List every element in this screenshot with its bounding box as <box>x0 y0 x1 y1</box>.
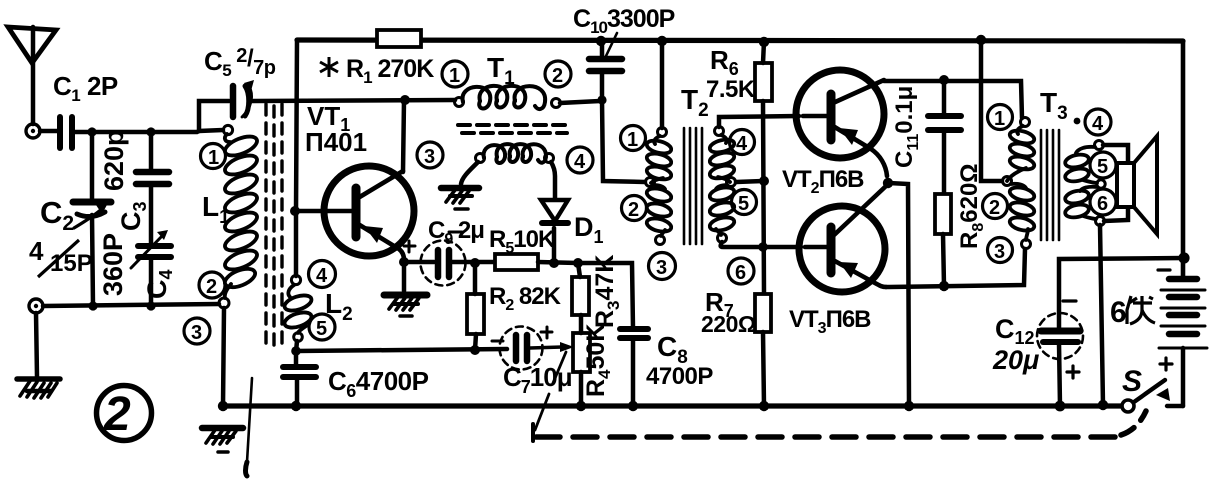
antenna <box>8 27 56 124</box>
node T3 feed rail <box>976 35 986 45</box>
wire T1 right to node <box>560 101 600 103</box>
svg-text:6: 6 <box>735 262 746 284</box>
svg-text:5: 5 <box>1097 156 1108 178</box>
node R2 top <box>470 258 480 268</box>
capacitor C6 <box>283 367 316 377</box>
transformer T3 secondary <box>1064 141 1105 226</box>
svg-text:1: 1 <box>994 108 1005 130</box>
wire R5 to D1 node <box>538 262 578 263</box>
transformer T2 primary <box>645 128 672 245</box>
star footnote <box>320 57 338 77</box>
speaker <box>1117 136 1157 234</box>
wire C3 to C4 <box>149 184 154 245</box>
wire rail to T2 primary <box>660 41 665 128</box>
node C8 rail <box>628 401 638 411</box>
svg-text:R510K: R510K <box>489 226 556 257</box>
svg-text:4: 4 <box>736 133 748 155</box>
wire T2 sec top to VT2 base <box>719 116 799 127</box>
node T3 rail <box>1098 400 1108 410</box>
node C2 bottom <box>88 301 97 310</box>
diode D1 <box>541 200 568 263</box>
top rail <box>297 40 1183 41</box>
wire C8 to rail <box>631 338 636 406</box>
transformer T3 core <box>1041 130 1059 240</box>
wire T1 sec right to D1 <box>551 162 555 199</box>
node C6 bottom rail <box>291 401 301 411</box>
ground (antenna) <box>17 379 60 398</box>
wire right edge <box>1181 41 1186 277</box>
svg-text:VT2П6В: VT2П6В <box>782 166 864 197</box>
label C2 fraction slash <box>38 240 79 277</box>
capacitor C2 (variable) <box>73 202 111 228</box>
wire antenna to C1 <box>40 129 57 134</box>
node R6-R7 tap <box>759 176 769 186</box>
antenna terminal <box>26 124 40 138</box>
node C6 top <box>291 346 301 356</box>
wire VT3 emitter to T3 primary bottom <box>886 249 1025 287</box>
node C12 rail <box>1055 401 1066 412</box>
wire C12 bottom <box>1059 343 1060 406</box>
bottom rail <box>223 403 1122 408</box>
ground (bottom rail) <box>202 428 243 452</box>
label C2 value 4/15P <box>29 236 93 277</box>
terminal 6 T2 <box>728 258 754 284</box>
capacitor C8 <box>620 329 648 338</box>
wire T3 sec top to speaker <box>1103 145 1128 164</box>
wire C5 to VT1 collector node <box>250 100 455 101</box>
node C4 bottom <box>146 301 155 310</box>
label 6V battery <box>1110 296 1155 329</box>
ground (T1 secondary) <box>441 188 479 209</box>
svg-text:6: 6 <box>1110 296 1127 329</box>
svg-text:R1 270K: R1 270K <box>346 55 434 87</box>
terminal 3 T3 <box>988 238 1013 264</box>
svg-text:620p: 620p <box>99 129 129 191</box>
wire rail to T3 tap <box>981 40 1002 181</box>
node C2 top <box>87 127 96 136</box>
wire R3 node to C8 <box>578 263 633 328</box>
node C10 rail <box>596 36 606 46</box>
node ground rail left <box>218 401 228 411</box>
wire T2 tap to node <box>736 181 764 182</box>
capacitor C10 <box>589 33 622 100</box>
terminal 6 T3 <box>1090 189 1116 215</box>
node C3 top <box>146 127 155 136</box>
wire C7 to R4 wiper arrow <box>530 342 574 352</box>
terminal 2 T1 <box>545 61 571 87</box>
capacitor C1 <box>60 117 72 148</box>
transformer T1 primary <box>455 86 561 109</box>
wire R8 bottom lead <box>943 234 944 286</box>
wire ground bus left <box>43 304 219 306</box>
node rail x909 <box>904 401 914 411</box>
wire T3 sec bottom to speaker <box>1104 206 1128 221</box>
wire C2 to bottom <box>92 215 93 306</box>
node C11 top <box>939 75 949 85</box>
wire R2 leads <box>475 267 476 350</box>
node R3 top <box>573 258 583 268</box>
resistor R2 <box>467 294 484 334</box>
node R7 rail <box>759 401 769 411</box>
transformer T3 primary <box>1003 118 1036 249</box>
node R4 rail <box>576 401 586 411</box>
svg-text:2: 2 <box>989 197 1000 219</box>
svg-text:1: 1 <box>449 65 460 87</box>
transistor VT2 <box>796 70 887 176</box>
svg-text:C710μ: C710μ <box>503 362 572 397</box>
figure number 2 <box>97 386 152 442</box>
wire VT1 collector up <box>403 100 404 172</box>
node L1 bottom <box>219 298 229 308</box>
svg-text:360P: 360P <box>98 233 128 296</box>
coil L2 <box>283 275 314 341</box>
terminal 1 T2 <box>621 126 646 152</box>
terminal 2 T3 <box>983 194 1008 220</box>
svg-text:4: 4 <box>29 236 44 266</box>
svg-text:R347K: R347K <box>591 255 623 328</box>
wire feedback bus y350 <box>296 349 507 351</box>
wire C3 branch <box>149 132 154 171</box>
dashed control link <box>533 411 1146 441</box>
wire C12 feed <box>1059 258 1184 330</box>
wire terminal to ground <box>36 313 37 377</box>
wire C2 branch <box>90 132 95 200</box>
wire emitter to C9 <box>408 260 434 265</box>
terminal 5 T2 <box>732 190 757 216</box>
svg-text:4: 4 <box>574 151 586 173</box>
terminal 2 L1 <box>199 272 225 298</box>
terminal 4 T2 <box>730 130 755 156</box>
svg-text:2: 2 <box>628 199 639 221</box>
resistor R1 <box>377 30 421 47</box>
node T2 top rail <box>657 36 667 46</box>
terminal 4 T3 <box>1085 109 1111 135</box>
wire T1 sec left to ground <box>461 162 478 184</box>
svg-text:S: S <box>1122 365 1142 398</box>
wire C4 to bottom <box>149 257 154 306</box>
svg-text:C64700P: C64700P <box>328 366 429 401</box>
svg-text:2: 2 <box>552 65 563 87</box>
wire L1 bottom down <box>223 308 224 406</box>
svg-text:3: 3 <box>191 322 202 344</box>
wire R3 top lead <box>578 263 580 277</box>
svg-text:7.5K: 7.5K <box>706 76 756 103</box>
transistor VT1 <box>299 166 414 260</box>
capacitor C5 (trimmer) <box>233 80 254 117</box>
wire emitter node to rail <box>888 183 909 406</box>
node VT1 base <box>290 206 300 216</box>
resistor R4 (volume) <box>573 333 590 372</box>
coil L1 <box>222 125 259 298</box>
wire VT2 collector bus <box>884 81 1022 118</box>
wire left vertical base line <box>296 40 297 276</box>
terminal 3 T2 <box>649 253 676 280</box>
transformer T1 core (dashed) <box>458 125 567 133</box>
resistor R3 <box>572 277 589 315</box>
terminal 1 L1 <box>201 144 226 170</box>
wire R4 bottom lead <box>579 372 584 406</box>
resistor R6 <box>755 63 772 101</box>
switch S <box>1122 380 1170 412</box>
wire T3 sec bottom to rail <box>1100 225 1103 405</box>
svg-text:6: 6 <box>1097 193 1108 215</box>
svg-text:3: 3 <box>994 241 1005 263</box>
terminal 1 T1 <box>442 61 468 87</box>
wire R6 leads <box>763 41 764 294</box>
terminal 4 T1 <box>567 147 593 173</box>
svg-text:C9 2μ: C9 2μ <box>428 217 484 248</box>
svg-text:R2 82K: R2 82K <box>489 283 562 314</box>
transformer T1 secondary <box>476 144 554 163</box>
terminal 4 L2 <box>309 261 336 288</box>
svg-text:1: 1 <box>627 129 638 151</box>
resistor R5 <box>495 254 538 270</box>
wire T2 sec bottom to VT3 base <box>721 242 801 247</box>
terminal 3 L1 <box>184 318 210 344</box>
ground (VT1 emitter) <box>384 295 427 316</box>
node VT1 emitter <box>399 257 409 267</box>
capacitor C11 <box>928 81 961 194</box>
node collector/C5/T1 <box>400 95 410 105</box>
terminal 3 T1 <box>417 142 443 168</box>
svg-text:C110.1μ: C110.1μ <box>891 86 922 168</box>
wire C9 to R5 <box>452 260 495 265</box>
svg-text:VT3П6В: VT3П6В <box>789 306 871 337</box>
svg-text:5: 5 <box>316 318 327 340</box>
svg-text:R450K: R450K <box>582 324 614 397</box>
node battery top feed <box>1178 252 1189 263</box>
node VT2 emitter / VT3 collector <box>883 178 893 188</box>
capacitor C4 (trimmer) <box>131 230 171 268</box>
resistor R8 <box>935 194 951 234</box>
svg-text:15P: 15P <box>50 250 93 277</box>
terminal 5 L2 <box>309 314 335 340</box>
transformer T2 core <box>684 128 702 244</box>
svg-text:4700P: 4700P <box>646 363 713 390</box>
svg-text:П401: П401 <box>305 127 367 157</box>
svg-text:4: 4 <box>1092 113 1104 135</box>
ground terminal <box>29 299 43 313</box>
wire C6 leads <box>296 352 297 406</box>
terminal 2 T2 <box>622 196 647 222</box>
wire L2 bottom to C6 <box>296 341 297 352</box>
dashed pointer to R4 <box>535 352 566 430</box>
node R8 bottom <box>939 281 949 291</box>
terminal 1 T3 <box>988 105 1013 131</box>
stray crease line <box>246 378 253 476</box>
node R2 bottom <box>470 345 480 355</box>
wire node to T2 tap <box>602 100 645 182</box>
node R6 rail <box>759 37 769 47</box>
transistor VT3 <box>799 187 886 292</box>
core L1-L2 (dashed) <box>266 104 282 347</box>
node VT3 base R7 <box>758 242 768 252</box>
capacitor C12 (electrolytic) <box>1037 301 1083 378</box>
wire R7 bottom <box>763 332 764 406</box>
svg-text:220Ω: 220Ω <box>701 311 756 337</box>
capacitor C9 (electrolytic) <box>404 232 466 286</box>
svg-text:2: 2 <box>103 388 131 441</box>
wire emitter to ground <box>402 266 407 291</box>
capacitor C3 <box>136 172 169 184</box>
svg-text:3: 3 <box>656 257 667 279</box>
capacitor C7 (electrolytic) <box>492 327 552 370</box>
wire C1 to L1 top <box>75 130 223 132</box>
dot mark near T3(4) <box>1074 118 1081 125</box>
node T1-C10-T2 <box>597 95 606 104</box>
wire R3-R4 link <box>579 315 584 333</box>
transformer T2 secondary <box>708 127 735 243</box>
resistor R7 <box>755 294 771 332</box>
svg-text:C1 2P: C1 2P <box>53 71 118 105</box>
svg-text:C103300P: C103300P <box>573 5 675 37</box>
svg-text:4: 4 <box>316 265 328 287</box>
svg-text:5: 5 <box>738 193 749 215</box>
node D1 bottom <box>549 258 559 268</box>
terminal 5 T3 <box>1090 152 1116 178</box>
svg-text:1: 1 <box>208 147 219 169</box>
svg-text:20μ: 20μ <box>992 345 1039 375</box>
svg-text:3: 3 <box>424 146 435 168</box>
svg-text:2: 2 <box>206 276 217 298</box>
battery 6V <box>1158 270 1207 406</box>
wire L1 tap to C5 <box>199 101 229 131</box>
